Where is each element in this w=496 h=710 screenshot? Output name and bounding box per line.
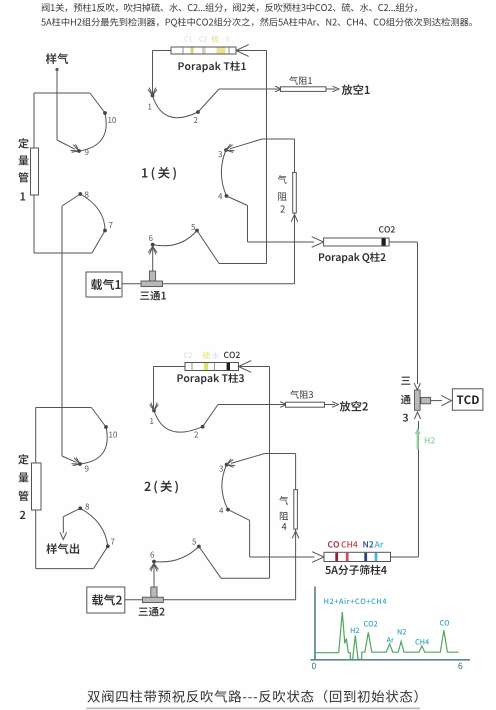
wire port3 branch horizontal (265, 453, 296, 455)
arrow into column3 right (backflush) (239, 361, 252, 373)
column1 yellow band 2 (217, 48, 226, 54)
wire carrier2 to restrictor4 leg (163, 599, 295, 601)
faint label C2 (199, 36, 207, 41)
wire below tube1 (33, 195, 35, 253)
V1 port 3 (224, 148, 228, 152)
V1 port 2 (196, 110, 200, 114)
V2 port 1 (152, 409, 156, 413)
wire tee1 up to port6 (152, 248, 154, 271)
wire V1 riser down (266, 51, 268, 264)
arrow into V1 port 1 (149, 88, 155, 96)
arrow into V2 port 1 (151, 403, 157, 411)
wire into V2 port3 (231, 454, 265, 464)
label 2 (20, 511, 25, 519)
wire V2 port2 diag (203, 405, 218, 427)
arrow into restrictor1 (275, 86, 281, 92)
wire to V1 port7 (92, 231, 105, 254)
detector box TCD (452, 389, 483, 410)
tee 三通3 vertical body (415, 390, 421, 410)
V2 rotor channel 1-2 (154, 411, 203, 433)
tee 三通2 body (142, 597, 163, 602)
chromatogram x-axis (311, 659, 471, 661)
sample loop tube 定量管2 (32, 463, 42, 510)
wire column1 right to riser (236, 50, 267, 52)
V2 port 9 (78, 462, 82, 466)
tee 三通3 right stub (421, 397, 431, 403)
label 1 (20, 192, 25, 200)
label 载气2 (92, 594, 122, 605)
V1 port 1 (151, 94, 155, 98)
wire restrictor4 to carrier2 line (295, 530, 297, 600)
column1 divider (218, 47, 220, 54)
wire to V2 port7 (93, 546, 107, 568)
peak label CO (440, 620, 449, 626)
wire down to restrictor2 (294, 139, 296, 173)
label CO2 in column 2 (379, 226, 395, 232)
arrow to vent2 (332, 402, 338, 408)
label 5A molecular sieve column 4 (325, 565, 386, 575)
V2 port 2 (201, 425, 205, 429)
label 阻 (280, 512, 288, 520)
restrictor R2 气阻2 body (293, 173, 297, 214)
arrow into column4 (312, 552, 324, 563)
column Porapak T 1 body (171, 47, 236, 54)
wire V2 port8 out (63, 508, 80, 516)
column1 pink band (203, 48, 206, 54)
arrow into V1 port 6 (150, 247, 156, 255)
wire V2 port4 out (228, 510, 250, 521)
V2 rotor channel 3-4 (222, 465, 228, 510)
arrow into V1 port 3 (226, 145, 235, 151)
V2 port label 1 (150, 418, 153, 424)
wire carrier1 to tee1 (122, 283, 141, 285)
V1 port 9 (77, 149, 81, 153)
column4 CO band (335, 553, 338, 561)
label 量 (18, 156, 28, 166)
faint label 硫 (212, 36, 219, 43)
wire V1 port8 out (62, 194, 80, 206)
wire into V1 port3 (230, 139, 262, 149)
wire to restrictor3 (218, 404, 285, 406)
label 管 (18, 172, 28, 182)
chromatogram y-axis (314, 587, 316, 661)
label 气 of 气阻2 (278, 175, 287, 184)
wire to column2 (248, 241, 315, 243)
wire to loop tube 2 (35, 408, 37, 464)
label composite peak (324, 598, 386, 604)
label CO (328, 541, 339, 548)
label sample-gas-in 样气 (46, 53, 68, 64)
wire restrictor2 to carrier line (294, 213, 296, 284)
wire below tube2 (35, 510, 37, 569)
V2 rotor channel 10-9 (80, 427, 107, 464)
wire to V1 port10 (90, 93, 105, 113)
restrictor R3 气阻3 body (286, 402, 325, 407)
label Porapak T column 1 (178, 61, 245, 72)
peak label CO2 (364, 621, 377, 627)
label sample out 样气出 (46, 543, 79, 554)
wire V2 top horizontal (36, 407, 92, 409)
V2 port 8 (78, 506, 82, 510)
label 管 (18, 491, 28, 501)
wire to loop tube 1 (33, 93, 35, 148)
label tee 三通1 (140, 291, 166, 300)
V1 port label 8 (85, 192, 89, 198)
column Porapak T 3 body (185, 363, 239, 371)
V1 port 8 (78, 192, 82, 196)
valve 2 state label 2(关) (144, 480, 177, 493)
faint label C1 (184, 36, 191, 41)
wire down to restrictor4 (295, 454, 297, 490)
arrow into tee3 bottom (414, 412, 420, 419)
wire V2 port1 up (153, 367, 155, 410)
V1 port label 2 (194, 117, 198, 123)
wire to V1 port5 (197, 231, 219, 264)
V1 rotor channel 1-2 (153, 96, 199, 118)
column1 divider (182, 47, 184, 54)
label 量 (18, 473, 28, 483)
tee 三通1 body (141, 281, 163, 287)
carrier gas 1 box 载气1 (86, 272, 122, 297)
column3 divider (191, 363, 193, 371)
column2 CO2 black band (382, 238, 386, 245)
arrow into TCD (441, 395, 451, 405)
wire down to tee3 (417, 242, 419, 384)
V1 port label 3 (218, 151, 222, 157)
V1 port label 6 (149, 235, 153, 241)
wire V1 port1 up (152, 51, 154, 96)
wire V1 port2 diag (198, 89, 219, 112)
arrow up into restrictor4 (292, 531, 299, 538)
peak label Ar (387, 637, 394, 642)
bottom separator line (86, 707, 420, 709)
peak label H2 (351, 628, 359, 633)
wire sample down (56, 71, 58, 140)
V1 port 6 (151, 243, 155, 247)
wire to V2 port10 (91, 408, 106, 428)
V1 port label 9 (85, 149, 89, 155)
label 三 of 三通3 (401, 377, 410, 385)
wire up to tee3 (418, 421, 420, 557)
V1 port 10 (103, 111, 107, 115)
V1 rotor channel 3-4 (221, 150, 226, 196)
V2 port 3 (225, 463, 229, 467)
tee 三通2 vertical stub (151, 587, 157, 598)
wire to V2 port5 (199, 547, 221, 579)
arrow into tee3 top (414, 383, 420, 390)
wire down (249, 520, 251, 557)
label CH4 (341, 541, 357, 548)
label 通 (401, 395, 411, 404)
axis label 0 (312, 663, 316, 669)
V1 port 7 (103, 229, 107, 233)
wire restrictor1 out (326, 88, 336, 90)
V2 port label 8 (85, 504, 89, 510)
annotation line 2 (41, 18, 472, 28)
column1 divider (228, 47, 230, 54)
V2 port label 10 (109, 432, 117, 438)
V1 port label 1 (148, 104, 151, 110)
arrow into V2 port 9 (72, 458, 81, 464)
peak label CH4 (415, 639, 428, 645)
column3 divider (214, 363, 216, 371)
carrier gas 2 box 载气2 (87, 587, 125, 613)
V1 port label 4 (218, 193, 222, 199)
label N2 (363, 541, 373, 547)
wire sample transfer V1->V2 (61, 206, 63, 456)
label 3 (403, 414, 408, 422)
column1 yellow band (191, 48, 194, 54)
V1 rotor channel 10-9 (79, 113, 106, 151)
faint label 水 (212, 352, 219, 359)
wire diag to port9 (57, 140, 75, 149)
wire to restrictor1 (219, 88, 280, 90)
wire carrier1 to restrictor2 leg (163, 283, 295, 285)
V2 port label 6 (150, 552, 154, 558)
wire tee3 to TCD (431, 400, 442, 402)
V2 port label 9 (85, 466, 89, 472)
V2 port label 4 (219, 508, 223, 514)
column1 divider (202, 47, 204, 54)
label H2 green (425, 437, 435, 443)
wire restrictor3 out (325, 404, 336, 406)
restrictor R1 气阻1 body (281, 87, 327, 92)
arrow into column Q2 (312, 237, 324, 248)
V1 rotor channel 8-7 (80, 194, 105, 231)
V2 rotor channel 8-7 (80, 508, 108, 546)
wire diag to V2 port9 (62, 456, 77, 462)
caption (87, 690, 417, 703)
arrow to vent1 (333, 86, 339, 92)
wire riser bottom horizontal (219, 263, 267, 265)
label vent 放空2 (340, 401, 368, 412)
wire column2 right out (389, 241, 417, 243)
label Ar (374, 541, 383, 547)
V2 port label 5 (192, 539, 196, 545)
V1 port 5 (195, 229, 199, 233)
label 载气1 (91, 279, 121, 290)
V1 port 4 (225, 194, 229, 198)
column Porapak Q 2 body (324, 238, 390, 246)
column4 CH4 band (346, 553, 349, 561)
label 定 of 定量管2 (18, 454, 28, 464)
axis label 6 (458, 663, 462, 669)
label restrictor 气阻1 (289, 76, 312, 84)
wire bottom horizontal (34, 252, 92, 254)
V2 port label 7 (111, 539, 115, 545)
label 气 of 气阻4 (279, 496, 288, 505)
wire V1 port4 out (227, 196, 248, 206)
V2 rotor channel 5-6 (154, 547, 199, 562)
arrow up into restrictor2 (291, 215, 298, 222)
wire tee2 up to port6 (153, 565, 155, 587)
label TCD (457, 395, 479, 404)
faint label 硫 (203, 352, 210, 359)
arrow into V2 port 6 (151, 564, 157, 572)
label Porapak T column 3 (177, 373, 243, 384)
label Porapak Q column 2 (319, 252, 385, 263)
wire down (247, 206, 249, 243)
peak label N2 (398, 629, 406, 634)
label vent 放空1 (342, 84, 370, 95)
label 定 of 定量管1 (18, 138, 28, 148)
wire riser bottom horizontal (221, 577, 270, 579)
V2 port label 2 (194, 432, 198, 438)
wire port3 branch horizontal (262, 138, 295, 140)
wire column4 right out (391, 556, 419, 558)
H2 flow arrow (green) (417, 433, 419, 450)
restrictor R4 气阻4 body (294, 490, 298, 529)
column4 Ar band (375, 553, 378, 561)
wire to column4 (250, 556, 315, 558)
V1 rotor channel 5-6 (153, 231, 197, 246)
V2 port 6 (152, 560, 156, 564)
V2 port 10 (104, 425, 108, 429)
label 2 (280, 205, 284, 212)
arrow into V2 port 3 (227, 460, 236, 466)
node sample inlet (55, 68, 58, 71)
label tee 三通2 (139, 607, 165, 616)
label 阻 (278, 192, 286, 200)
faint label S (226, 36, 230, 41)
wire V2 riser down (269, 367, 271, 579)
V1 port label 7 (109, 222, 113, 228)
label restrictor 气阻3 (290, 390, 313, 398)
V2 port label 3 (219, 466, 223, 472)
wire bottom horizontal V2 (36, 568, 94, 570)
wire carrier2 to tee2 (125, 599, 143, 601)
V2 port 7 (106, 544, 110, 548)
column3 yellow-green band (204, 363, 208, 370)
faint label C2 (184, 352, 192, 358)
valve 1 state label 1(关) (142, 167, 176, 180)
arrow sample out down (60, 532, 67, 539)
wire V1 top horizontal (34, 92, 90, 94)
wire column3 right to riser (239, 366, 270, 368)
wire to column3 left end (154, 366, 186, 368)
annotation line 1 (42, 3, 417, 12)
sample loop tube 定量管1 (31, 148, 39, 195)
V1 port label 5 (191, 224, 195, 230)
V1 port label 10 (108, 117, 116, 123)
V2 port 4 (226, 508, 230, 512)
arrow into restrictor3 (280, 402, 286, 408)
tee 三通1 vertical stub (149, 271, 155, 282)
label CO2 in column 3 (224, 352, 240, 358)
column 5A molecular sieve 4 body (324, 552, 391, 561)
column4 N2 band (364, 553, 367, 561)
wire sample out (62, 517, 64, 533)
chromatogram trace (316, 612, 459, 659)
label 4 (282, 523, 287, 530)
column3 CO2 black band (227, 363, 230, 370)
V2 port 5 (197, 545, 201, 549)
arrow into V1 port 9 (71, 145, 80, 151)
arrow into column1 right (backflush) (236, 45, 249, 57)
wire to column1 left end (153, 50, 172, 52)
